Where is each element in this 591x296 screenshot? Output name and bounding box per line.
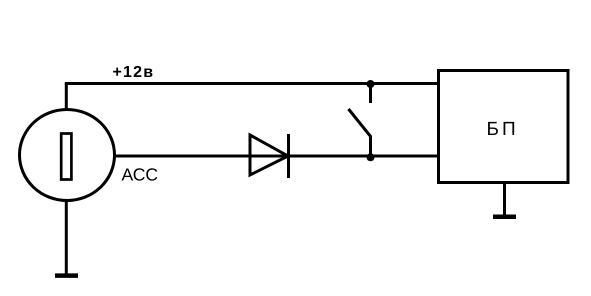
label +12в [113, 64, 155, 81]
label АСС [122, 165, 159, 185]
power supply box БП [439, 71, 569, 183]
switch upper stub wire [369, 84, 372, 103]
junction node: switch tap on +12v rail [367, 80, 375, 88]
wire: ignition switch ground stem [65, 201, 68, 275]
junction node: switch tap on ACC line [367, 153, 375, 161]
label БП [487, 119, 519, 140]
svg-text:АСС: АСС [122, 165, 159, 185]
wire: ignition switch top terminal up to +12v rail [65, 84, 68, 111]
diode VD1 anode triangle [250, 135, 288, 175]
switch blade (open contact) [349, 109, 372, 137]
svg-text:+12в: +12в [113, 64, 155, 81]
wire: +12v rail (top horizontal) [65, 82, 440, 85]
ignition switch body (circle) [20, 110, 115, 201]
wire: ACC line (middle horizontal) [113, 155, 440, 158]
diode VD1 cathode bar [287, 134, 290, 178]
svg-text:БП: БП [487, 119, 519, 140]
key slot inside ignition switch [61, 134, 71, 180]
switch lower stub wire [369, 136, 372, 157]
ground symbol (power supply) [493, 215, 516, 220]
wire: power supply ground stem [503, 184, 506, 215]
ground symbol (ignition switch) [55, 273, 78, 278]
